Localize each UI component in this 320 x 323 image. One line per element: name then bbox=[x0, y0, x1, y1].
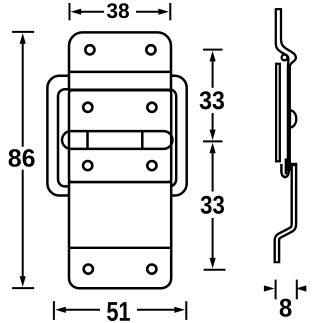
dim 38 tick right bbox=[169, 3, 171, 20]
dim 86 line bbox=[22, 42, 24, 147]
dim 51 tick right bbox=[185, 301, 187, 320]
side view: bail strip bbox=[276, 64, 280, 162]
dim 8 label bbox=[280, 299, 292, 317]
dim 33b label bbox=[201, 196, 224, 214]
bottom plate hole right bbox=[147, 265, 156, 274]
dim 86 tick bottom bbox=[12, 287, 34, 289]
dim 38 tick left bbox=[69, 3, 71, 20]
handle bar bbox=[62, 131, 173, 149]
bottom plate seam bbox=[69, 247, 171, 249]
body hole bottom-right bbox=[147, 161, 156, 170]
side view: top strap with S-bend and U-turn bbox=[276, 9, 296, 170]
dim 33a tick top bbox=[203, 49, 223, 51]
dim 33b tick bottom bbox=[204, 269, 226, 271]
side view: strap U-turn bbox=[281, 164, 288, 177]
top plate hole left bbox=[85, 45, 94, 54]
dim 38 arrow left bbox=[71, 9, 82, 15]
dim 33b line bbox=[212, 152, 214, 192]
side view: handle bar bump bbox=[290, 110, 296, 127]
dim 86 arrow up bbox=[20, 33, 26, 44]
dim 38 arrow right bbox=[158, 9, 169, 15]
bail loop outer bbox=[47, 76, 186, 196]
top plate hole right bbox=[146, 45, 155, 54]
dim 86 label bbox=[9, 149, 35, 167]
dim 51 line bbox=[65, 309, 100, 311]
handle bar divider right bbox=[141, 131, 144, 149]
dim 51 arrow left bbox=[55, 307, 66, 313]
top plate seam bbox=[69, 71, 171, 74]
dim 8 tick left bbox=[275, 280, 277, 300]
dim 33b arrow down bbox=[210, 258, 216, 269]
dim 8 tick right bbox=[296, 280, 298, 300]
dim 38 label bbox=[107, 3, 129, 18]
dim 33a arrow up bbox=[210, 51, 216, 62]
side view: lower strap bbox=[277, 163, 294, 263]
dim 33a label bbox=[200, 91, 224, 109]
bottom plate hole left bbox=[84, 265, 93, 274]
dim 8 arrow right bbox=[296, 285, 306, 291]
side view: hinge knuckle bbox=[282, 55, 288, 61]
lower strap and bottom plate bbox=[69, 182, 171, 288]
dim 38 line bbox=[81, 11, 105, 13]
side view: strap curled tip bbox=[285, 159, 288, 175]
top mounting plate bbox=[69, 32, 171, 89]
body hole top-right bbox=[147, 103, 156, 112]
dim 33a arrow down bbox=[210, 130, 216, 141]
dim 51 arrow right bbox=[174, 307, 185, 313]
dim 86 tick top bbox=[12, 31, 34, 33]
dim 86 arrow down bbox=[20, 276, 26, 287]
bail loop inner bbox=[58, 89, 176, 186]
body hole bottom-left bbox=[83, 161, 92, 170]
dim 33a line bbox=[212, 60, 214, 88]
dim 51 tick left bbox=[53, 301, 55, 320]
dim 8 arrow left bbox=[264, 285, 275, 291]
dim 51 label bbox=[107, 302, 130, 321]
dim 33 middle tick bbox=[203, 140, 223, 142]
dim 33b arrow up bbox=[210, 143, 216, 154]
body hole top-left bbox=[83, 103, 92, 112]
handle bar divider left bbox=[86, 131, 89, 149]
latch body plate bbox=[69, 90, 171, 182]
